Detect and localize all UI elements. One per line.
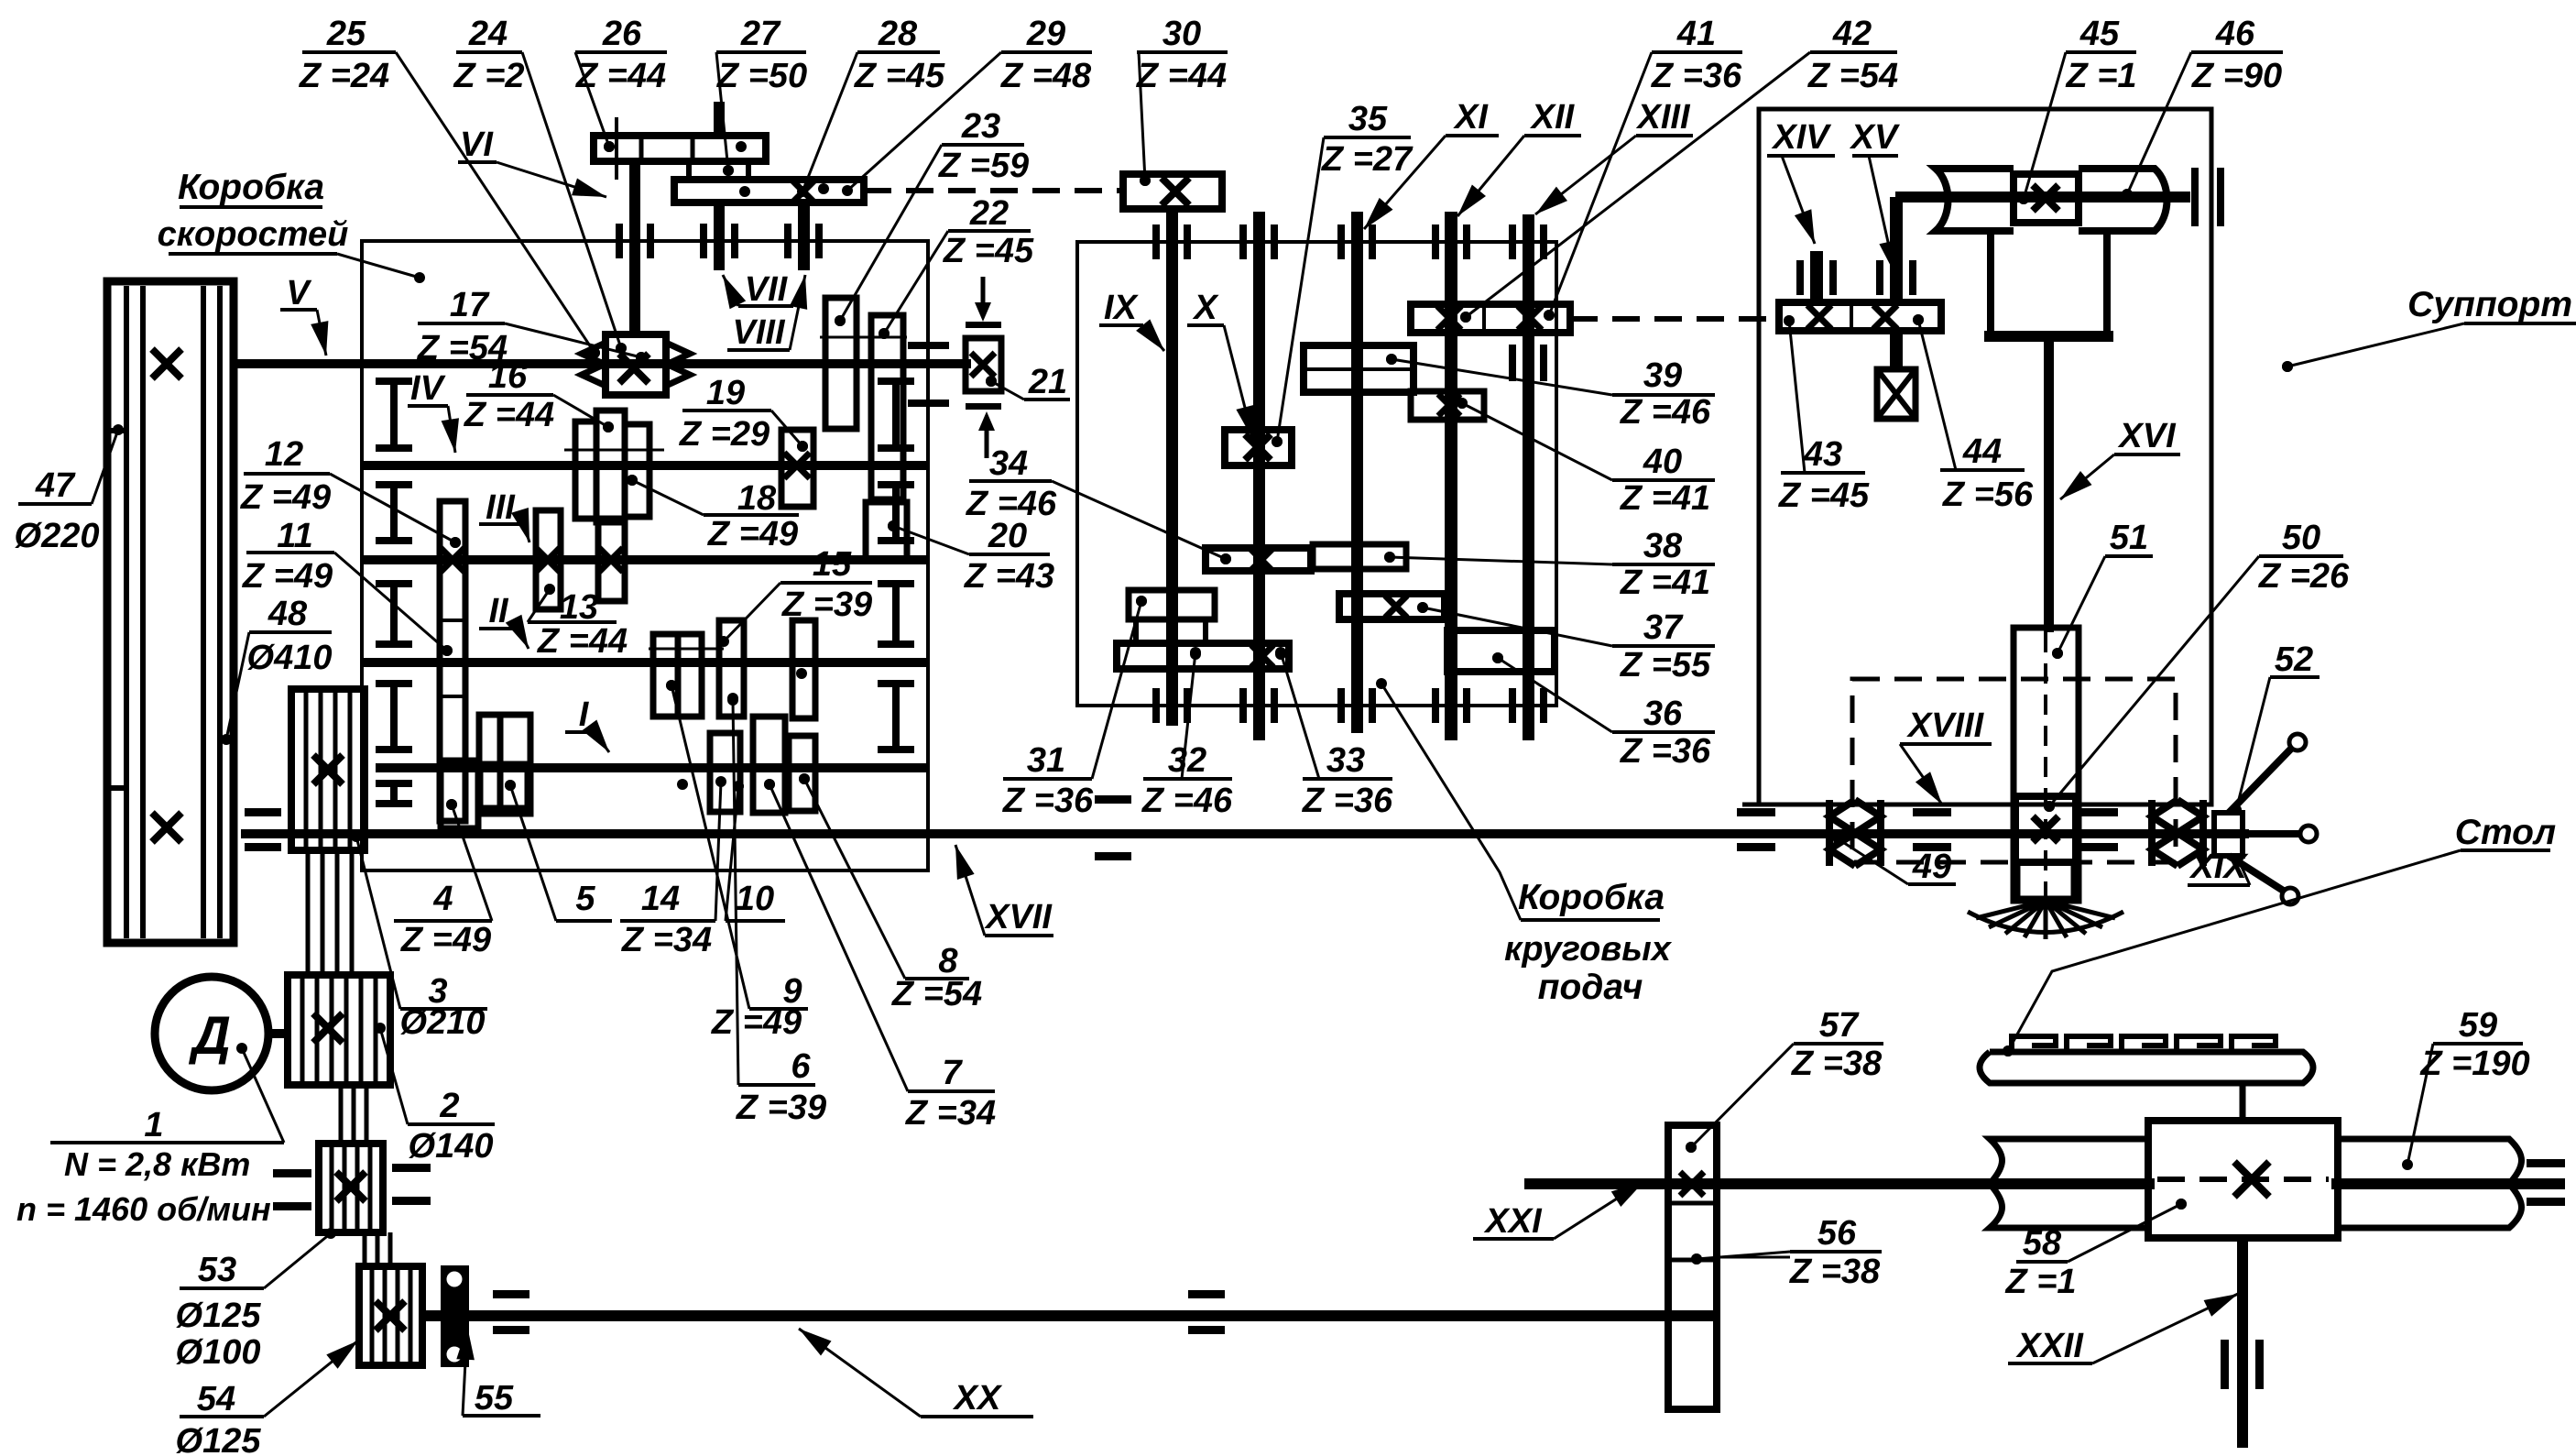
gear 21 cross bbox=[971, 353, 995, 377]
sleeve left wavy bbox=[1990, 1139, 2150, 1228]
shaft X bbox=[1253, 212, 1265, 740]
label 11 Z=49 bbox=[242, 517, 453, 656]
svg-text:50: 50 bbox=[2282, 519, 2320, 557]
svg-text:VII: VII bbox=[745, 270, 789, 309]
pulley 54 lines bbox=[370, 1270, 375, 1362]
belt band C-D bbox=[363, 1232, 367, 1266]
pulley 53 lines bbox=[330, 1147, 334, 1229]
shaft XV vertical bbox=[1890, 197, 1903, 304]
label 36 Z=36 bbox=[1492, 652, 1715, 771]
svg-text:Ø220: Ø220 bbox=[15, 517, 100, 555]
right wall bearing ladder bbox=[878, 378, 914, 452]
shaft XXII bbox=[2237, 1238, 2248, 1448]
rack to gearbox link bbox=[2240, 1083, 2246, 1121]
svg-text:Z =29: Z =29 bbox=[679, 415, 770, 454]
gear 24/25 chevron detent left bbox=[582, 343, 606, 386]
svg-text:32: 32 bbox=[1168, 741, 1206, 780]
svg-text:Z =24: Z =24 bbox=[299, 57, 389, 95]
svg-text:58: 58 bbox=[2023, 1224, 2062, 1263]
svg-text:34: 34 bbox=[989, 444, 1028, 483]
svg-text:Z =36: Z =36 bbox=[1002, 782, 1094, 820]
belt 55 bracket bbox=[441, 1265, 469, 1367]
label 45 Z=1 bbox=[2018, 15, 2137, 204]
bearing marks XX mid bbox=[1188, 1290, 1225, 1298]
label 3 D210 bbox=[351, 831, 487, 1042]
svg-text:Z =41: Z =41 bbox=[1620, 564, 1710, 602]
gear 8 on I bbox=[789, 736, 815, 811]
support box bottom left foot bbox=[1742, 803, 1775, 807]
label 9 Z=49 bbox=[666, 680, 808, 1042]
label 13 Z=44 bbox=[528, 584, 628, 661]
svg-text:25: 25 bbox=[326, 15, 366, 53]
svg-text:Z =45: Z =45 bbox=[854, 57, 945, 95]
label 42 Z=54 bbox=[1460, 15, 1898, 323]
coupling 49 left chevrons bbox=[1829, 800, 1881, 866]
leader line 56 bbox=[1717, 1256, 1790, 1259]
gear 34 row bbox=[1206, 548, 1311, 571]
svg-text:Z =38: Z =38 bbox=[1789, 1253, 1881, 1291]
svg-text:Суппорт: Суппорт bbox=[2407, 285, 2572, 324]
svg-text:Z =1: Z =1 bbox=[2065, 57, 2136, 95]
svg-text:Z =44: Z =44 bbox=[464, 396, 554, 434]
screw bottom cap bbox=[2017, 862, 2074, 899]
svg-text:38: 38 bbox=[1643, 527, 1683, 565]
pulley 48 cross bbox=[152, 813, 181, 842]
svg-text:30: 30 bbox=[1162, 15, 1201, 53]
label 51 bbox=[2052, 519, 2153, 659]
svg-text:Z =45: Z =45 bbox=[943, 232, 1034, 270]
shaft IV bbox=[362, 461, 928, 470]
label XIX bbox=[2188, 848, 2250, 886]
label 50 Z=26 bbox=[2044, 519, 2350, 812]
bearing shaft VIII top bbox=[784, 224, 791, 258]
gear 12/11 strip bbox=[440, 501, 465, 821]
gear 31 hub bbox=[1136, 619, 1206, 643]
svg-text:Ø410: Ø410 bbox=[247, 639, 333, 677]
shaft XIII bbox=[1523, 214, 1534, 740]
svg-text:Z =41: Z =41 bbox=[1620, 479, 1710, 518]
label 5 bbox=[505, 780, 612, 921]
svg-text:XV: XV bbox=[1850, 118, 1900, 157]
svg-text:49: 49 bbox=[1912, 848, 1951, 886]
bearing marks XVII mid bbox=[1095, 795, 1131, 804]
label II bbox=[479, 592, 529, 649]
svg-text:Коробка: Коробка bbox=[1518, 878, 1665, 917]
svg-text:XX: XX bbox=[953, 1379, 1003, 1418]
pulley 54 block bbox=[359, 1266, 422, 1365]
cone pulley belt lines bbox=[124, 286, 129, 938]
svg-text:Z =36: Z =36 bbox=[1620, 732, 1711, 771]
shaft IX bbox=[1166, 209, 1178, 726]
gear 30 cross bbox=[1162, 178, 1189, 205]
bearing shaft XV bbox=[1876, 260, 1883, 295]
label 37 Z=55 bbox=[1417, 602, 1715, 684]
svg-text:Коробка: Коробка bbox=[178, 168, 324, 207]
svg-text:n = 1460 об/мин: n = 1460 об/мин bbox=[16, 1190, 271, 1228]
svg-text:IV: IV bbox=[410, 369, 446, 408]
svg-text:18: 18 bbox=[737, 479, 777, 518]
bearing shaft XII top bbox=[1432, 224, 1439, 259]
label 59 Z=190 bbox=[2402, 1006, 2530, 1170]
label 56 Z=38 bbox=[1691, 1214, 1882, 1291]
worm housing bottom bbox=[1984, 331, 2113, 342]
bearing shaft X top bbox=[1239, 224, 1247, 259]
label Koribka skorostei bbox=[158, 168, 349, 254]
svg-text:N = 2,8 кВт: N = 2,8 кВт bbox=[64, 1145, 250, 1183]
gear 21 lower stop bar bbox=[966, 403, 1001, 410]
label 33 Z=36 bbox=[1275, 647, 1393, 820]
gear 22 mesh line bbox=[820, 336, 907, 339]
bearing shaft XI bottom bbox=[1337, 688, 1345, 723]
label XXI bbox=[1473, 1181, 1644, 1241]
pulley 53 cross bbox=[336, 1172, 366, 1201]
gear 21 down arrow bbox=[981, 277, 986, 306]
svg-text:31: 31 bbox=[1027, 741, 1065, 780]
label 6 Z=39 bbox=[727, 695, 826, 1127]
svg-text:21: 21 bbox=[1028, 363, 1067, 401]
svg-text:55: 55 bbox=[475, 1379, 514, 1418]
svg-text:22: 22 bbox=[969, 194, 1009, 233]
svg-text:Z =36: Z =36 bbox=[1651, 57, 1742, 95]
svg-text:Z =59: Z =59 bbox=[938, 147, 1029, 185]
label 54 D125 bbox=[176, 1341, 358, 1456]
label 24 Z=2 bbox=[453, 15, 627, 354]
svg-text:IX: IX bbox=[1104, 289, 1140, 327]
svg-text:6: 6 bbox=[791, 1047, 811, 1086]
bearing marks XX left bbox=[493, 1290, 529, 1298]
gear 33 cross bbox=[1251, 645, 1273, 667]
label 17 Z=54 bbox=[417, 286, 647, 367]
svg-text:33: 33 bbox=[1326, 741, 1365, 780]
label 58 Z=1 bbox=[2004, 1199, 2187, 1301]
svg-text:Z =46: Z =46 bbox=[1141, 782, 1233, 820]
svg-text:Д: Д bbox=[188, 1006, 231, 1066]
svg-text:Z =34: Z =34 bbox=[621, 921, 712, 959]
pulley 53 block bbox=[319, 1144, 383, 1232]
label XII bbox=[1457, 98, 1581, 216]
gear 20 bbox=[866, 502, 907, 559]
shaft XIV vertical bbox=[1810, 251, 1823, 304]
gear 15 block a bbox=[653, 634, 678, 717]
pulley 2 belt lines bbox=[300, 979, 305, 1081]
gear 7 on I bbox=[753, 717, 785, 813]
svg-text:Z =44: Z =44 bbox=[1136, 57, 1227, 95]
svg-text:56: 56 bbox=[1817, 1214, 1857, 1253]
worm wheel 46 left half bbox=[1936, 169, 2014, 231]
label XIV bbox=[1767, 118, 1835, 244]
svg-text:XI: XI bbox=[1453, 98, 1489, 137]
gear 21 box bbox=[966, 338, 1001, 391]
svg-text:круговых: круговых bbox=[1504, 930, 1673, 969]
gear 42 cross bbox=[1518, 306, 1542, 330]
svg-text:Z =43: Z =43 bbox=[964, 557, 1054, 596]
label 4 Z=49 bbox=[394, 799, 492, 959]
label 15 Z=39 bbox=[718, 545, 872, 647]
label 34 Z=46 bbox=[966, 444, 1231, 564]
label 41 Z=36 bbox=[1544, 15, 1742, 321]
gear 24/25 block on V bbox=[606, 334, 666, 395]
dashed box XVIII bbox=[1852, 679, 2176, 862]
gear 24/25 chevron detent right bbox=[666, 343, 690, 386]
svg-text:X: X bbox=[1192, 289, 1219, 327]
gear 16 block b bbox=[596, 411, 625, 522]
gear 15 block b bbox=[678, 634, 702, 717]
shaft I bbox=[376, 763, 928, 772]
gear 30 box bbox=[1123, 174, 1222, 209]
motor shaft stub bbox=[268, 1029, 289, 1038]
svg-text:28: 28 bbox=[878, 15, 918, 53]
dashed line row 41 to support bbox=[1570, 316, 1779, 322]
svg-text:10: 10 bbox=[736, 880, 774, 918]
crossed end box under XV bbox=[1877, 369, 1916, 419]
label 32 Z=46 bbox=[1141, 647, 1233, 820]
svg-text:17: 17 bbox=[450, 286, 490, 324]
label I bbox=[565, 695, 609, 752]
bearing shaft XIII top bbox=[1509, 224, 1516, 259]
rack 59 bar bbox=[1980, 1052, 2313, 1083]
box 58 dashed centerline bbox=[2157, 1177, 2329, 1182]
svg-text:Z =54: Z =54 bbox=[891, 975, 982, 1013]
svg-text:Ø125: Ø125 bbox=[176, 1422, 262, 1456]
gear 14 on I bbox=[710, 733, 740, 812]
speed box outline bbox=[362, 241, 928, 870]
svg-text:16: 16 bbox=[488, 357, 528, 396]
svg-text:27: 27 bbox=[740, 15, 781, 53]
svg-text:подач: подач bbox=[1538, 968, 1643, 1007]
svg-text:Z =90: Z =90 bbox=[2191, 57, 2282, 95]
shaft XXI bbox=[1524, 1178, 2155, 1189]
svg-text:скоростей: скоростей bbox=[158, 215, 349, 254]
label 43 Z=45 bbox=[1778, 315, 1870, 515]
bearing worm shaft right bbox=[2191, 168, 2199, 226]
shaft VIII bar bbox=[798, 203, 810, 270]
svg-text:15: 15 bbox=[813, 545, 852, 584]
shaft III bbox=[362, 555, 928, 564]
svg-text:37: 37 bbox=[1643, 608, 1684, 647]
gear 5 on XVII bbox=[480, 764, 528, 808]
shaft XX bbox=[422, 1310, 1717, 1321]
bearing marks XVII in support a bbox=[1913, 808, 1951, 816]
svg-text:XVIII: XVIII bbox=[1906, 706, 1985, 745]
gear 23 bbox=[825, 298, 857, 429]
bearing marks XVII at support wall bbox=[1737, 808, 1775, 816]
label 20 Z=43 bbox=[888, 517, 1054, 596]
label III bbox=[479, 488, 529, 542]
gear 41 cross bbox=[1437, 306, 1461, 330]
label 47 D220 bbox=[15, 424, 124, 555]
gear 57 cross bbox=[1680, 1172, 1704, 1196]
gear 13 cross bbox=[536, 548, 560, 572]
worm wheel 46 right half bbox=[2079, 169, 2167, 231]
label XX bbox=[799, 1329, 1033, 1418]
svg-text:Z =46: Z =46 bbox=[1620, 393, 1711, 432]
label 7 Z=34 bbox=[764, 779, 996, 1133]
svg-text:V: V bbox=[286, 274, 311, 312]
gear 40 bbox=[1411, 391, 1484, 420]
gear 14 cross bbox=[599, 548, 623, 572]
pulley 3 belt lines bbox=[304, 693, 309, 847]
svg-text:11: 11 bbox=[277, 517, 312, 555]
svg-text:1: 1 bbox=[144, 1106, 163, 1144]
svg-text:Ø140: Ø140 bbox=[409, 1127, 494, 1166]
pulley 2 block bbox=[288, 975, 390, 1085]
label n ob/min bbox=[16, 1190, 271, 1228]
label XV bbox=[1850, 118, 1900, 275]
svg-text:Z =39: Z =39 bbox=[736, 1089, 826, 1127]
svg-text:XVII: XVII bbox=[984, 898, 1053, 936]
shaft XVI bbox=[2044, 342, 2054, 632]
svg-text:23: 23 bbox=[961, 107, 1000, 146]
label 30 Z=44 bbox=[1136, 15, 1228, 186]
pulley 3 (belt) block bbox=[291, 689, 365, 850]
gear 37 cross bbox=[1385, 596, 1407, 618]
svg-text:2: 2 bbox=[439, 1087, 459, 1125]
bearing marks XVII in support b bbox=[2079, 808, 2118, 816]
bearing shaft VI top bbox=[616, 224, 623, 258]
svg-text:Z =45: Z =45 bbox=[1778, 476, 1870, 515]
label 8 Z=54 bbox=[799, 773, 982, 1013]
svg-text:24: 24 bbox=[468, 15, 508, 53]
label 25 Z=24 bbox=[299, 15, 600, 358]
label 10 bbox=[726, 781, 785, 921]
svg-text:Z =54: Z =54 bbox=[1807, 57, 1898, 95]
bearing caps right of speed box at V bbox=[908, 342, 949, 349]
bearing marks 53 right bbox=[392, 1164, 431, 1172]
rack 59 teeth (greek key) bbox=[2012, 1036, 2276, 1052]
svg-text:44: 44 bbox=[1962, 432, 2002, 471]
gear 14 strip bbox=[598, 519, 625, 601]
bearing shaft X bottom bbox=[1239, 688, 1247, 723]
label IX bbox=[1099, 289, 1164, 351]
gear on II right bbox=[792, 620, 815, 718]
svg-text:II: II bbox=[488, 592, 509, 630]
label 12 Z=49 bbox=[240, 435, 461, 548]
bearing shaft VII top bbox=[700, 224, 707, 258]
gear 37 row bbox=[1339, 594, 1445, 619]
shaft XVII bbox=[241, 829, 2249, 838]
gear 38 bbox=[1313, 544, 1406, 569]
label XIII bbox=[1535, 98, 1693, 214]
svg-text:XVI: XVI bbox=[2117, 417, 2177, 455]
shaft VI vertical bbox=[629, 161, 640, 334]
svg-text:Z =48: Z =48 bbox=[1000, 57, 1092, 95]
svg-text:46: 46 bbox=[2215, 15, 2255, 53]
svg-text:Z =1: Z =1 bbox=[2004, 1263, 2076, 1301]
label 39 Z=46 bbox=[1386, 354, 1715, 432]
bearing shaft XIV bbox=[1796, 260, 1804, 295]
feed box outline bbox=[1077, 242, 1556, 706]
svg-text:Z =34: Z =34 bbox=[905, 1094, 996, 1133]
svg-text:III: III bbox=[486, 488, 516, 527]
svg-text:19: 19 bbox=[706, 374, 745, 412]
label 44 Z=56 bbox=[1913, 314, 2034, 514]
svg-text:43: 43 bbox=[1803, 435, 1842, 474]
gear 12 cross bbox=[440, 547, 465, 573]
bearing marks 53 left bbox=[273, 1169, 311, 1177]
dashed shaft VIII to gear 30 bbox=[864, 188, 1123, 193]
label XVIII bbox=[1900, 706, 1992, 805]
bevel gear fan bbox=[1976, 901, 2115, 939]
table worm box 58 bbox=[2148, 1121, 2338, 1238]
gear 29 cross bbox=[791, 180, 815, 203]
gear 28/29 row bbox=[674, 180, 864, 203]
gear 4 on XVII bbox=[441, 761, 478, 828]
gear 36 bbox=[1447, 630, 1555, 672]
svg-text:35: 35 bbox=[1348, 100, 1388, 138]
svg-text:Z =36: Z =36 bbox=[1302, 782, 1393, 820]
nut 50 cross bbox=[2033, 816, 2058, 842]
svg-text:29: 29 bbox=[1026, 15, 1065, 53]
gear 44 cross bbox=[1873, 305, 1897, 329]
svg-text:Z =49: Z =49 bbox=[707, 515, 798, 553]
gear 6 block bbox=[719, 620, 744, 717]
svg-text:Z =55: Z =55 bbox=[1620, 646, 1711, 684]
label 22 Z=45 bbox=[879, 194, 1034, 339]
svg-text:Z =49: Z =49 bbox=[242, 557, 333, 596]
gear 26 row bbox=[594, 136, 766, 161]
label D100 bbox=[176, 1333, 261, 1372]
bearing marks shaft XVII left bbox=[245, 808, 281, 816]
gear 27 bbox=[689, 161, 748, 180]
svg-text:14: 14 bbox=[641, 880, 680, 918]
gear 35 cross bbox=[1245, 434, 1271, 460]
svg-text:40: 40 bbox=[1643, 443, 1682, 481]
svg-text:Z =50: Z =50 bbox=[716, 57, 807, 95]
label 53 D125 D100 bbox=[176, 1228, 336, 1335]
svg-text:XII: XII bbox=[1530, 98, 1576, 137]
gear 56/57 column bbox=[1668, 1125, 1717, 1409]
svg-text:26: 26 bbox=[602, 15, 642, 53]
label 28 Z=45 bbox=[797, 15, 945, 197]
label 18 Z=49 bbox=[627, 475, 799, 553]
belt band B-C bbox=[339, 1085, 344, 1144]
gear 39 row bbox=[1304, 345, 1414, 392]
gear 22 bbox=[871, 315, 903, 499]
gear 16 mesh line bbox=[564, 449, 664, 452]
svg-text:47: 47 bbox=[35, 466, 76, 505]
svg-text:Z =27: Z =27 bbox=[1321, 140, 1414, 179]
bearing shaft XII bottom bbox=[1432, 688, 1439, 723]
label 1 bbox=[50, 1043, 284, 1144]
left wall bearing ladder bbox=[376, 378, 412, 452]
thin shaft line above gear 26 bbox=[615, 117, 618, 180]
label XI bbox=[1364, 98, 1499, 229]
svg-text:Стол: Стол bbox=[2455, 813, 2556, 852]
svg-text:45: 45 bbox=[2079, 15, 2120, 53]
svg-text:59: 59 bbox=[2459, 1006, 2497, 1045]
shaft XI bbox=[1351, 212, 1363, 733]
label 2 D140 bbox=[375, 1023, 495, 1166]
svg-text:Z =38: Z =38 bbox=[1791, 1045, 1883, 1083]
gear 34 cross bbox=[1250, 548, 1273, 572]
svg-text:54: 54 bbox=[197, 1380, 235, 1418]
label VIII bbox=[727, 275, 807, 352]
label 48 D410 bbox=[221, 595, 332, 745]
shaft XV lower stub bbox=[1890, 331, 1903, 369]
svg-text:Ø100: Ø100 bbox=[176, 1333, 261, 1372]
svg-text:Ø125: Ø125 bbox=[176, 1297, 262, 1335]
label 21 bbox=[986, 363, 1070, 401]
label VII bbox=[723, 270, 793, 309]
gear 32/33 row bbox=[1117, 643, 1289, 669]
svg-text:Z =39: Z =39 bbox=[781, 586, 872, 624]
pulley 2 cross bbox=[313, 1013, 343, 1043]
pulley 54 cross bbox=[376, 1301, 405, 1330]
label 40 Z=41 bbox=[1457, 398, 1715, 518]
handwheel 52 bbox=[2214, 813, 2243, 856]
svg-text:Z =190: Z =190 bbox=[2419, 1045, 2529, 1083]
svg-text:Z =26: Z =26 bbox=[2258, 557, 2350, 596]
